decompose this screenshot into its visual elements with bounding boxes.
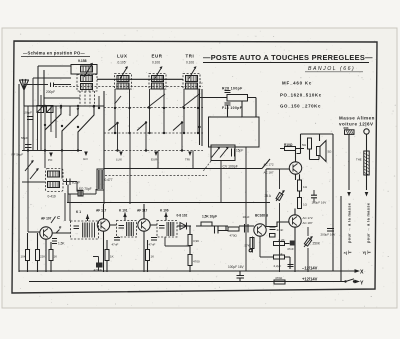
svg-text:K 101: K 101 (119, 209, 128, 213)
svg-text:PO_1620_510Kc: PO_1620_510Kc (280, 93, 322, 98)
svg-text:THE: THE (356, 158, 362, 162)
svg-text:9.158: 9.158 (78, 59, 87, 63)
svg-text:LUX: LUX (116, 158, 122, 162)
svg-text:250K: 250K (313, 242, 321, 246)
svg-text:0.106: 0.106 (152, 61, 160, 65)
svg-text:10K: 10K (21, 255, 26, 259)
svg-text:4700: 4700 (193, 260, 200, 264)
svg-text:0-8 102: 0-8 102 (177, 214, 188, 218)
svg-text:200pF: 200pF (46, 90, 55, 94)
svg-text:CV 100pF: CV 100pF (223, 165, 238, 169)
svg-text:MF_460 Kc: MF_460 Kc (282, 81, 312, 86)
svg-text:BC168 B: BC168 B (255, 214, 269, 218)
svg-text:NF 56pF: NF 56pF (12, 153, 24, 157)
svg-text:47nF: 47nF (287, 247, 294, 251)
svg-text:pour → à la masse: pour → à la masse (367, 203, 371, 243)
svg-text:7c: 7c (199, 80, 203, 85)
svg-text:F13 100pF: F13 100pF (222, 106, 242, 110)
svg-text:Masse Alimen: Masse Alimen (339, 116, 375, 121)
svg-text:1K: 1K (110, 255, 114, 259)
svg-text:GO: GO (83, 157, 88, 161)
svg-text:×| ⊢: ×| ⊢ (344, 250, 353, 255)
svg-text:LUX: LUX (117, 54, 128, 59)
svg-text:2,2μF: 2,2μF (274, 264, 282, 268)
svg-text:Y: Y (360, 281, 364, 287)
svg-text:AF 117: AF 117 (96, 209, 107, 213)
svg-text:470Ω: 470Ω (275, 276, 283, 280)
svg-text:K 106: K 106 (160, 209, 169, 213)
svg-text:22K: 22K (40, 255, 45, 259)
svg-text:470pF: 470pF (94, 268, 103, 272)
svg-text:AC 187: AC 187 (264, 171, 274, 175)
svg-text:0.105: 0.105 (118, 61, 126, 65)
svg-text:0.106: 0.106 (186, 61, 194, 65)
svg-text:10μF: 10μF (243, 215, 250, 219)
svg-text:Y| ⊢: Y| ⊢ (363, 250, 372, 255)
svg-text:1K: 1K (54, 255, 58, 259)
svg-text:X: X (360, 270, 364, 276)
svg-text:56pF: 56pF (21, 136, 28, 140)
svg-text:100μF 16V: 100μF 16V (228, 265, 245, 269)
svg-text:—Schéma en position PO—: —Schéma en position PO— (23, 51, 86, 56)
svg-text:AF 117: AF 117 (137, 209, 148, 213)
svg-text:—POSTE AUTO A TOUCHES PREREGLE: —POSTE AUTO A TOUCHES PREREGLEES— (203, 53, 373, 62)
svg-text:BANJOL (66): BANJOL (66) (308, 66, 355, 72)
svg-text:pour → à la masse: pour → à la masse (348, 203, 352, 243)
svg-text:+12/14V: +12/14V (302, 277, 318, 282)
svg-text:−12/14V: −12/14V (302, 266, 318, 271)
svg-text:0.477: 0.477 (105, 178, 113, 182)
svg-text:1,5K 10μF: 1,5K 10μF (202, 215, 217, 219)
svg-text:R10Ω: R10Ω (284, 143, 293, 147)
svg-text:47nF: 47nF (277, 228, 284, 232)
svg-text:0-419: 0-419 (48, 195, 56, 199)
svg-text:470Ω: 470Ω (230, 234, 238, 238)
svg-text:GO_150 _270Kc: GO_150 _270Kc (280, 104, 321, 109)
svg-text:EUR: EUR (152, 54, 163, 59)
svg-text:1K: 1K (151, 255, 155, 259)
svg-text:TRI: TRI (185, 158, 190, 162)
svg-text:47nF: 47nF (112, 243, 119, 247)
svg-text:1,5K: 1,5K (58, 242, 65, 246)
svg-text:100pF: 100pF (24, 111, 33, 115)
svg-text:60K: 60K (344, 126, 349, 130)
svg-text:AC 187: AC 187 (303, 221, 313, 225)
svg-text:100μF 16V: 100μF 16V (312, 201, 327, 205)
svg-text:47nF: 47nF (149, 243, 156, 247)
svg-text:AC 172: AC 172 (303, 216, 313, 220)
svg-text:35 A: 35 A (265, 194, 272, 198)
svg-text:3,9K: 3,9K (193, 239, 199, 243)
svg-text:PO: PO (48, 158, 53, 162)
svg-text:TRI: TRI (186, 54, 195, 59)
svg-text:57K: 57K (245, 244, 250, 248)
svg-text:K 1: K 1 (76, 210, 81, 214)
svg-text:200μF 16V: 200μF 16V (321, 233, 336, 237)
